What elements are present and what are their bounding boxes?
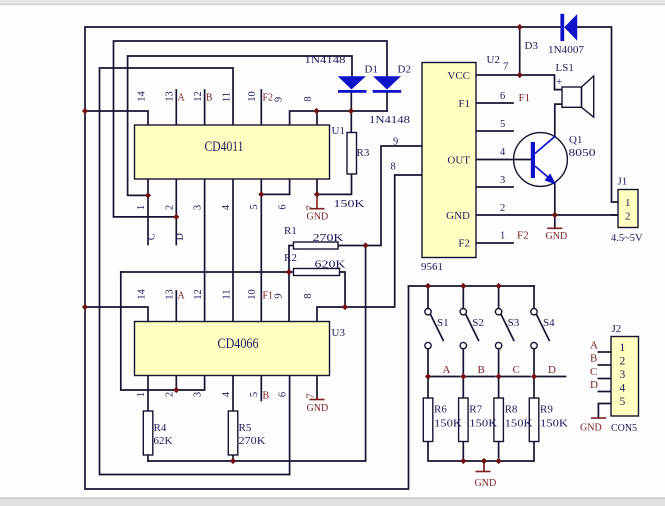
svg-text:9561: 9561	[421, 261, 443, 273]
svg-text:R9: R9	[540, 404, 553, 416]
svg-text:10: 10	[247, 289, 258, 300]
svg-text:150K: 150K	[334, 198, 365, 210]
wire VCC to U3 pin14	[85, 307, 148, 322]
wire U3 pin1 to R4 top	[147, 376, 149, 412]
IC U1 CD4011 body	[135, 125, 330, 179]
wire U1 pin4 to U3 pin11	[232, 179, 234, 322]
svg-text:F2: F2	[517, 230, 529, 242]
wire U1 pin9 to D1/D2 cathodes	[290, 111, 387, 125]
svg-text:2: 2	[164, 392, 175, 397]
svg-text:9: 9	[393, 137, 398, 148]
node R7 bottom	[460, 458, 466, 464]
wire R2 right down to U3 pin8 net	[340, 272, 346, 307]
svg-text:GND: GND	[307, 212, 329, 223]
svg-text:A: A	[443, 364, 451, 376]
node R1 right	[363, 242, 369, 248]
svg-text:62K: 62K	[154, 435, 173, 447]
svg-text:1N4007: 1N4007	[548, 44, 584, 56]
svg-text:R1: R1	[284, 225, 297, 237]
svg-text:6: 6	[500, 91, 505, 102]
svg-text:150K: 150K	[434, 418, 462, 430]
transistor Q1 circle	[514, 133, 568, 187]
svg-text:5: 5	[249, 392, 260, 397]
svg-text:1: 1	[136, 205, 147, 210]
svg-text:1: 1	[620, 342, 626, 354]
svg-text:150K: 150K	[505, 418, 533, 430]
svg-text:3: 3	[193, 205, 204, 210]
wire net D rung	[534, 376, 566, 378]
ground symbol at Q1 emitter	[547, 227, 562, 229]
svg-text:D: D	[175, 233, 186, 240]
svg-text:R6: R6	[434, 404, 447, 416]
node R2 right on pin8 net	[342, 304, 348, 310]
svg-text:4: 4	[500, 147, 506, 158]
node A rung	[425, 373, 431, 379]
resistor R7 body	[459, 398, 469, 442]
svg-text:OUT: OUT	[447, 155, 470, 167]
node bus/S3	[496, 283, 502, 289]
svg-text:F2: F2	[458, 238, 470, 250]
node U1 pin8 on diode net	[313, 108, 319, 114]
svg-text:9: 9	[274, 97, 285, 102]
svg-text:D: D	[548, 364, 556, 376]
wire J2 pin4 stub (net D)	[598, 391, 611, 393]
resistor R1 body	[294, 242, 339, 249]
svg-text:R5: R5	[239, 422, 252, 434]
diode D2 symbol	[373, 76, 402, 93]
node U2 pin7 VCC	[517, 72, 523, 78]
svg-text:4: 4	[620, 383, 626, 395]
node bus/S1	[425, 283, 431, 289]
wire U2 pin4 OUT to Q1 base	[476, 159, 531, 161]
svg-text:620K: 620K	[315, 259, 346, 271]
node U3 pin2	[173, 387, 179, 393]
svg-text:A: A	[590, 340, 598, 352]
wire U3 pin13 stub (net A)	[175, 291, 177, 322]
svg-text:U2: U2	[487, 54, 500, 66]
svg-text:7: 7	[306, 205, 317, 210]
svg-text:8: 8	[303, 293, 314, 298]
svg-text:4: 4	[221, 391, 232, 397]
svg-text:270K: 270K	[313, 232, 344, 244]
wire D1 cathode to R3 top	[350, 92, 352, 133]
resistor R2 body	[294, 269, 340, 276]
svg-text:10: 10	[247, 91, 258, 102]
svg-text:11: 11	[222, 289, 233, 299]
wire U2 pin6 stub (F1)	[476, 102, 513, 104]
svg-text:U3: U3	[332, 327, 346, 339]
svg-text:1: 1	[136, 392, 147, 397]
switch S3	[495, 309, 513, 349]
node osc R2 left	[286, 269, 292, 275]
wire U1 pin5 to U3 pin10 (net F1)	[260, 179, 262, 322]
wire U1 pin10 stub (net F2)	[260, 90, 262, 125]
node switches GND	[481, 458, 487, 464]
svg-text:D: D	[590, 379, 598, 391]
wire U3 pin5 stub (net B)	[260, 376, 262, 401]
wire R1 right to U2 pin9	[338, 146, 422, 246]
wire U3 pin7 to GND	[316, 376, 318, 399]
wire S2 drop from bus	[462, 286, 464, 308]
wire speaker bottom terminal to Q1 collector	[555, 104, 562, 136]
svg-text:D3: D3	[525, 40, 539, 52]
node R8 bottom	[496, 458, 502, 464]
wire J2 pin1 stub (net A)	[598, 351, 611, 353]
svg-text:GND: GND	[446, 210, 470, 222]
wire U1 pin8 stub	[316, 111, 318, 125]
switch S4	[531, 309, 549, 349]
wire J2 pin2 stub (net B)	[598, 364, 611, 366]
svg-text:6: 6	[278, 392, 289, 397]
wire Q1 emitter GND symbol stub	[554, 215, 556, 228]
wire S3 drop from bus	[498, 286, 500, 308]
ground symbol at U3 pin7	[310, 396, 325, 400]
connector J1 body	[618, 190, 638, 228]
svg-text:4.5~5V: 4.5~5V	[611, 233, 643, 244]
PARTS	[135, 14, 639, 472]
svg-text:J1: J1	[618, 176, 628, 188]
svg-text:7: 7	[306, 393, 317, 398]
svg-text:B: B	[478, 364, 485, 376]
svg-text:C: C	[147, 233, 158, 240]
svg-text:B: B	[206, 93, 213, 104]
svg-text:2: 2	[620, 356, 626, 368]
node C rung	[496, 373, 502, 379]
svg-text:F2: F2	[263, 93, 274, 104]
wire Q1 emitter to GND rail	[554, 184, 556, 216]
svg-text:B: B	[263, 391, 270, 402]
svg-text:U1: U1	[332, 125, 345, 137]
top window bar	[0, 0, 665, 5]
resistor R8 body	[494, 398, 504, 442]
wire S4 bottom to R9	[533, 349, 535, 398]
svg-text:9: 9	[274, 293, 285, 298]
svg-text:1: 1	[625, 197, 631, 209]
svg-text:13: 13	[165, 289, 176, 300]
svg-text:11: 11	[222, 92, 233, 102]
svg-text:6: 6	[278, 204, 289, 209]
svg-text:C: C	[590, 366, 597, 378]
wire S2 bottom to R7	[462, 349, 464, 398]
transistor Q1 emitter stroke with arrow	[535, 166, 556, 185]
svg-text:7: 7	[503, 62, 508, 73]
wire U1 pin6 tie to pin5	[261, 179, 289, 194]
svg-text:1: 1	[500, 231, 505, 242]
svg-text:S3: S3	[508, 317, 520, 329]
IC U3 CD4066 body	[135, 322, 330, 376]
wire U3 pin8 to U2 pin8	[317, 175, 422, 322]
IC U2 9561 body	[422, 63, 476, 258]
wire net C rung	[499, 376, 530, 378]
resistor R6 body	[423, 398, 433, 442]
svg-text:8050: 8050	[569, 147, 597, 159]
svg-text:CD4066: CD4066	[218, 336, 259, 352]
svg-text:3: 3	[500, 175, 505, 186]
wire R8 bottom	[498, 442, 500, 462]
svg-text:R4: R4	[154, 422, 167, 434]
diode D3 symbol	[560, 14, 577, 41]
svg-text:+: +	[556, 76, 562, 88]
resistor R4 body	[143, 411, 153, 455]
wire S1 drop from bus	[427, 286, 429, 308]
svg-text:3: 3	[620, 369, 626, 381]
svg-text:1N4148: 1N4148	[369, 114, 411, 126]
wire D2 cathode	[386, 92, 388, 111]
wire U2 pin2 GND rail to J1 pin2	[476, 214, 618, 216]
svg-text:S1: S1	[437, 317, 449, 329]
svg-text:2: 2	[500, 203, 505, 214]
wire U2 pin5 stub	[476, 130, 513, 132]
wire U1 pin1 lead (net C)	[147, 179, 149, 245]
wire oscillator node: U3 pin9 up to R1/R2 left	[289, 246, 294, 322]
svg-text:D1: D1	[365, 64, 378, 76]
wire U1 pin3 to U3 pin12	[204, 179, 206, 322]
node VCC/U3 pin14	[82, 304, 88, 310]
svg-text:R7: R7	[469, 404, 482, 416]
svg-text:GND: GND	[307, 403, 329, 414]
resistor R3 body	[347, 133, 357, 175]
svg-text:R2: R2	[284, 252, 297, 264]
wire switch GND stub	[483, 461, 485, 472]
svg-text:5: 5	[620, 396, 626, 408]
wire R5 bottom	[232, 455, 234, 461]
svg-text:F1: F1	[519, 92, 531, 104]
node VCC/U1 pin14	[82, 108, 88, 114]
svg-text:150K: 150K	[469, 418, 497, 430]
svg-text:2: 2	[164, 205, 175, 210]
wire U2 pin1 stub (F2)	[476, 242, 513, 244]
svg-text:2: 2	[625, 211, 631, 223]
wire U2 pin3 stub	[476, 186, 513, 188]
wire R2 left stub on osc node	[121, 271, 294, 273]
wire U3 pin2 stub	[175, 376, 177, 391]
transistor Q1 base bar	[531, 142, 535, 178]
node C at U1 pin1	[145, 192, 151, 198]
wire net A rung	[428, 376, 460, 378]
switch S2	[460, 309, 478, 349]
wire R6-R9 bottom rail	[428, 442, 534, 462]
svg-text:S2: S2	[472, 317, 484, 329]
ground symbol at J2 pin5	[591, 417, 606, 419]
wire J1 pin2 stub	[612, 214, 619, 216]
svg-text:F1: F1	[263, 291, 274, 302]
wire R7 bottom	[462, 442, 464, 462]
svg-text:A: A	[178, 291, 186, 302]
node B rung	[460, 373, 466, 379]
node D at U1 pin2	[173, 214, 179, 220]
wire S3 bottom to R8	[498, 349, 500, 398]
svg-text:4: 4	[221, 204, 232, 210]
svg-text:GND: GND	[546, 231, 568, 242]
wire U2 pin7 VCC stub to speaker	[476, 75, 562, 90]
resistor R9 body	[529, 398, 539, 442]
svg-text:VCC: VCC	[447, 70, 470, 82]
svg-text:13: 13	[165, 91, 176, 102]
svg-text:12: 12	[193, 289, 204, 300]
wire S4 drop from bus	[533, 286, 535, 308]
wire U3 pin4 to R5 top	[232, 376, 234, 412]
svg-text:5: 5	[249, 204, 260, 209]
svg-text:C: C	[513, 364, 520, 376]
svg-text:14: 14	[137, 91, 148, 102]
wire S1 bottom to R6	[427, 349, 429, 398]
node Q1 emitter on GND rail	[552, 212, 558, 218]
svg-text:270K: 270K	[239, 435, 266, 447]
wire U1 pin13 stub (net A)	[175, 90, 177, 125]
wire J2 pin5 stub to GND	[598, 404, 611, 419]
node F1 at U1 pin5	[258, 191, 264, 197]
svg-text:LS1: LS1	[556, 62, 574, 74]
svg-text:F1: F1	[458, 98, 470, 110]
wire VCC top rail left of D3	[85, 27, 560, 489]
wire VCC switch bus	[409, 285, 535, 287]
svg-text:1N4148: 1N4148	[305, 54, 347, 66]
connector J2 body	[611, 337, 639, 417]
ground symbol at U1 pin7	[310, 194, 325, 208]
svg-text:150K: 150K	[540, 418, 568, 430]
node bus/S2	[460, 283, 466, 289]
svg-text:8: 8	[303, 96, 314, 101]
resistor R5 body	[228, 411, 238, 455]
svg-text:GND: GND	[580, 423, 602, 434]
wire VCC drop to U2 pin7	[519, 27, 521, 75]
svg-text:14: 14	[137, 289, 148, 300]
bottom status bar	[0, 497, 665, 506]
wire R4 bottom	[147, 455, 149, 461]
node GND at U1 pin7	[314, 191, 320, 197]
node D rung	[531, 373, 537, 379]
svg-text:B: B	[590, 353, 597, 365]
transistor Q1 collector stroke	[535, 136, 556, 154]
wire U1 pin12 stub (net B)	[204, 90, 206, 125]
wire net B rung	[463, 376, 495, 378]
wire VCC to U1 pin14	[85, 111, 148, 125]
wire J2 pin3 stub (net C)	[598, 378, 611, 380]
svg-text:J2: J2	[612, 323, 622, 335]
ground symbol below switches	[476, 471, 491, 473]
wire VCC top rail right of D3 to J1 pin1	[577, 27, 618, 202]
svg-text:D2: D2	[398, 64, 411, 76]
wire U1 pin11 to U3 pin6 loop	[100, 68, 290, 475]
wire osc node down-left to U3 pins 2,3	[121, 272, 205, 390]
svg-text:5: 5	[500, 119, 505, 130]
wire net D: D2 anode loop to U1 pin2	[114, 41, 388, 217]
node D1 cathode / R3 top	[348, 108, 354, 114]
svg-text:8: 8	[391, 162, 396, 173]
switch S1	[425, 309, 443, 349]
node R5 bottom	[230, 458, 236, 464]
wire R3 bottom to U1 pin7 GND	[317, 174, 352, 194]
speaker LS1 symbol	[562, 76, 594, 117]
svg-text:3: 3	[193, 392, 204, 397]
svg-text:GND: GND	[475, 478, 497, 489]
svg-text:R8: R8	[505, 404, 518, 416]
svg-text:Q1: Q1	[569, 134, 582, 146]
wire net C: D1 anode loop to U1 pin1	[128, 56, 352, 195]
svg-text:R3: R3	[357, 147, 370, 159]
wire R1 right node down to R4/R5 bottom rail	[148, 246, 366, 462]
svg-text:A: A	[178, 93, 186, 104]
svg-text:CON5: CON5	[611, 422, 637, 434]
wire U1 pin2 lead (net D)	[175, 179, 177, 245]
diode D1 symbol	[338, 76, 367, 93]
svg-text:CD4011: CD4011	[205, 139, 244, 155]
svg-text:S4: S4	[543, 317, 555, 329]
wire U1 pin7 to GND	[316, 179, 318, 194]
U1 pin numbers top row	[136, 91, 317, 399]
node D3 top rail	[517, 24, 523, 30]
svg-text:12: 12	[193, 91, 204, 102]
